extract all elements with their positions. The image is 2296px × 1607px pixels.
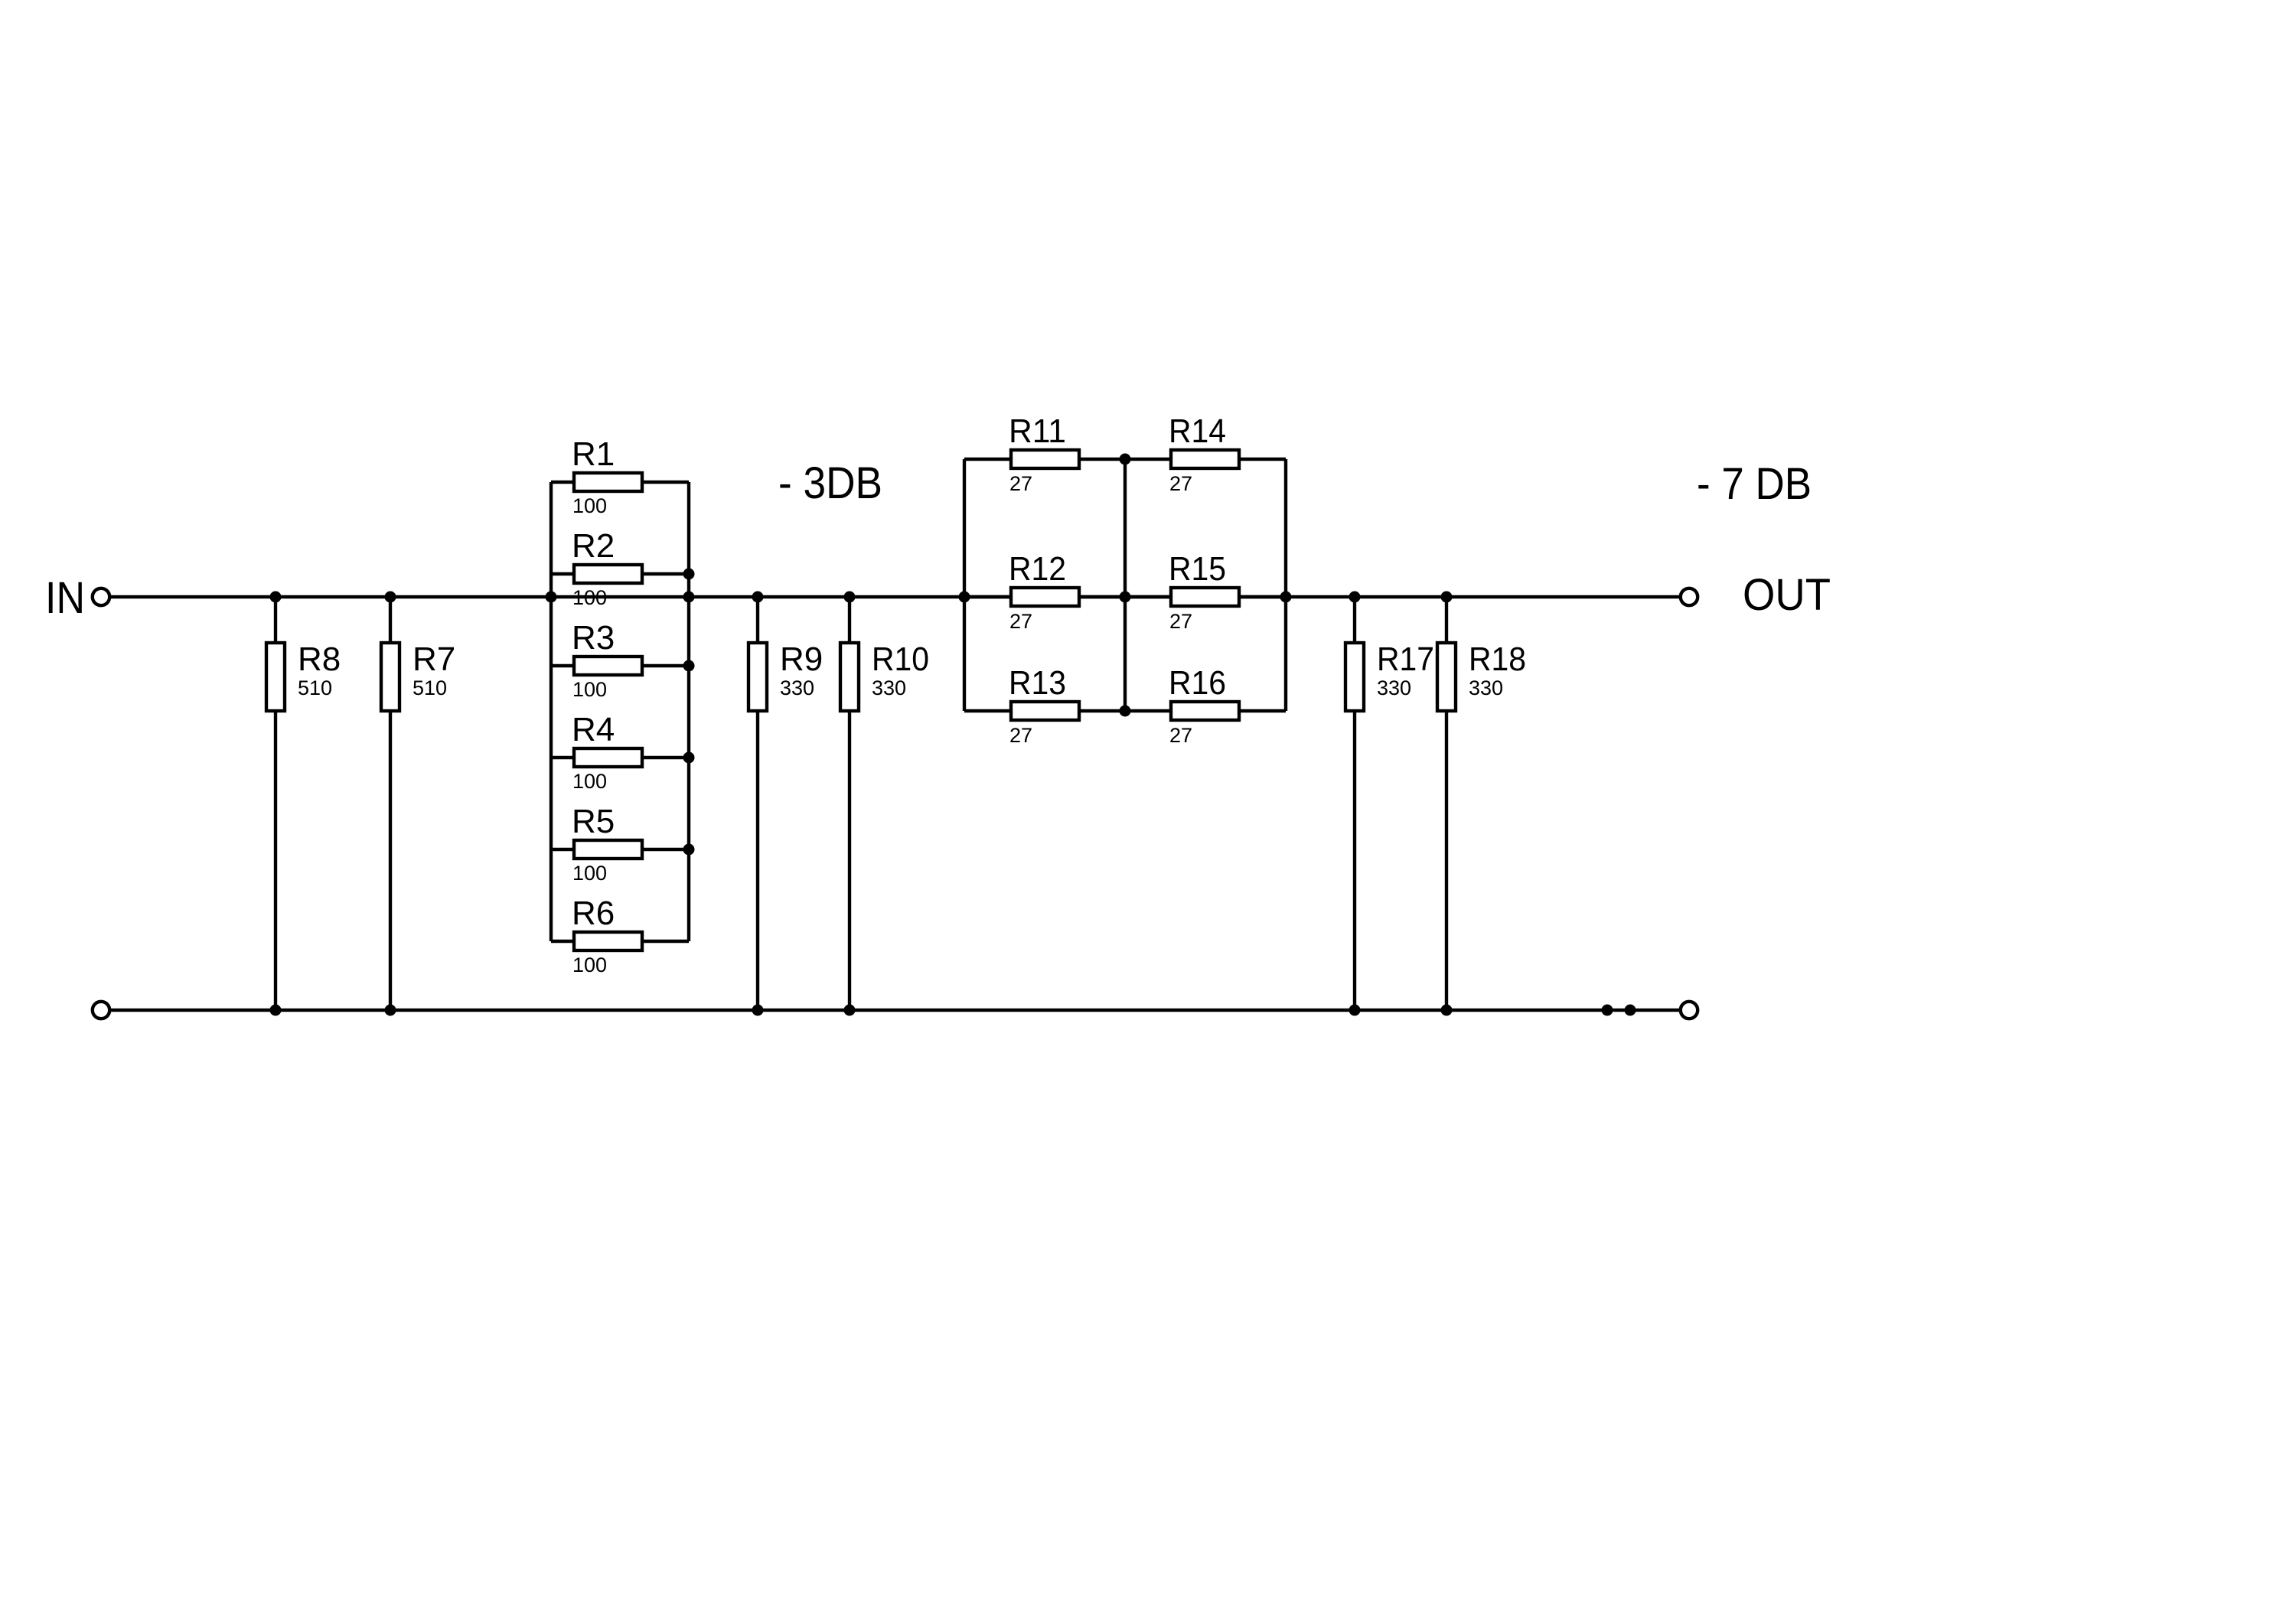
svg-text:27: 27 [1169, 472, 1192, 495]
svg-text:R5: R5 [572, 803, 615, 840]
junction bottom rail x=1890 [1441, 1005, 1453, 1016]
junction grid middle bus y=929 [1120, 706, 1131, 717]
svg-text:R4: R4 [572, 711, 615, 748]
junction top rail x=720 [546, 592, 557, 603]
junction top rail x=1470 [1120, 592, 1131, 603]
resistor R8 [266, 597, 285, 1010]
wire ladder right bus [687, 482, 690, 941]
svg-text:R3: R3 [572, 619, 615, 657]
junction bottom rail x=510 [385, 1005, 396, 1016]
svg-text:330: 330 [872, 676, 906, 699]
svg-text:R2: R2 [572, 527, 615, 565]
resistor R1 [551, 473, 689, 491]
svg-text:R9: R9 [780, 641, 823, 678]
svg-text:27: 27 [1169, 724, 1192, 747]
resistor R13 [964, 702, 1125, 720]
svg-text:100: 100 [572, 494, 607, 517]
resistor R18 [1437, 597, 1456, 1010]
wire bottom rail [111, 1009, 1679, 1012]
node IN terminal [93, 588, 109, 605]
junction ladder right bus y=870 [683, 660, 695, 672]
bottom right terminal [1681, 1002, 1698, 1019]
svg-text:- 7 DB: - 7 DB [1697, 459, 1812, 509]
junction ladder right bus y=990 [683, 752, 695, 764]
wire ladder left bus [550, 482, 553, 941]
wire grid left bus [963, 459, 966, 711]
svg-text:R7: R7 [413, 641, 455, 678]
svg-text:R10: R10 [872, 641, 929, 678]
resistor R9 [748, 597, 767, 1010]
svg-text:27: 27 [1009, 610, 1032, 633]
svg-text:27: 27 [1009, 724, 1032, 747]
resistor R2 [551, 565, 689, 583]
wire grid right bus [1284, 459, 1287, 711]
svg-text:R16: R16 [1169, 664, 1226, 702]
svg-text:R15: R15 [1169, 550, 1226, 588]
svg-text:330: 330 [1377, 676, 1411, 699]
resistor R3 [551, 657, 689, 675]
junction ladder right bus y=1110 [683, 844, 695, 856]
junction top rail x=1260 [959, 592, 970, 603]
svg-text:R1: R1 [572, 435, 615, 473]
svg-text:OUT: OUT [1743, 570, 1831, 620]
svg-text:R12: R12 [1009, 550, 1066, 588]
svg-text:100: 100 [572, 862, 607, 885]
resistor R6 [551, 932, 689, 950]
svg-text:330: 330 [780, 676, 814, 699]
junction bottom rail x=2130 [1625, 1005, 1636, 1016]
svg-text:R14: R14 [1169, 412, 1226, 450]
node OUT terminal [1681, 588, 1698, 605]
svg-text:27: 27 [1169, 610, 1192, 633]
junction bottom rail x=1770 [1349, 1005, 1361, 1016]
svg-text:510: 510 [413, 676, 447, 699]
junction top rail x=1890 [1441, 592, 1453, 603]
svg-text:R11: R11 [1009, 412, 1066, 450]
resistor R10 [840, 597, 859, 1010]
junction bottom rail x=990 [752, 1005, 764, 1016]
resistor R11 [964, 450, 1125, 468]
junction top rail x=1770 [1349, 592, 1361, 603]
junction bottom rail x=360 [270, 1005, 282, 1016]
junction bottom rail x=1110 [844, 1005, 856, 1016]
resistor R15 [1125, 588, 1286, 606]
junction grid middle bus y=600 [1120, 454, 1131, 465]
svg-text:330: 330 [1469, 676, 1503, 699]
svg-text:R8: R8 [298, 641, 341, 678]
resistor R4 [551, 748, 689, 767]
junction top rail x=510 [385, 592, 396, 603]
svg-text:100: 100 [572, 770, 607, 793]
wire top rail IN-OUT [111, 595, 1679, 598]
junction top rail x=900 [683, 592, 695, 603]
junction top rail x=1110 [844, 592, 856, 603]
svg-text:100: 100 [572, 953, 607, 976]
svg-text:510: 510 [298, 676, 332, 699]
junction top rail x=360 [270, 592, 282, 603]
resistor R17 [1345, 597, 1364, 1010]
junction top rail x=990 [752, 592, 764, 603]
svg-text:R17: R17 [1377, 641, 1434, 678]
svg-text:R18: R18 [1469, 641, 1526, 678]
svg-text:- 3DB: - 3DB [778, 458, 882, 508]
svg-text:27: 27 [1009, 472, 1032, 495]
resistor R14 [1125, 450, 1286, 468]
bottom left terminal [93, 1002, 109, 1019]
junction top rail x=1680 [1280, 592, 1292, 603]
resistor R7 [381, 597, 400, 1010]
wire grid middle bus [1124, 459, 1127, 711]
svg-text:R13: R13 [1009, 664, 1066, 702]
svg-text:100: 100 [572, 586, 607, 609]
svg-text:R6: R6 [572, 895, 615, 932]
svg-text:IN: IN [45, 573, 85, 623]
junction ladder right bus y=750 [683, 569, 695, 580]
resistor R16 [1125, 702, 1286, 720]
resistor R5 [551, 840, 689, 859]
svg-text:100: 100 [572, 678, 607, 701]
junction bottom rail x=2100 [1602, 1005, 1613, 1016]
resistor R12 [964, 588, 1125, 606]
